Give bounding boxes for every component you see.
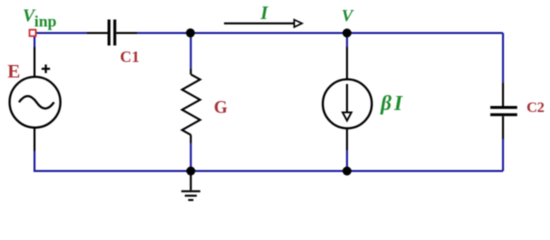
plus sign of E (42, 65, 50, 74)
resistor G (182, 69, 200, 143)
svg-text:inp: inp (34, 14, 56, 31)
ground (181, 175, 200, 200)
node Vinp terminal square (30, 30, 36, 36)
svg-text:G: G (214, 97, 228, 117)
voltage source E (10, 47, 61, 151)
node dot current source bottom (343, 167, 352, 176)
wire bottom bus (34, 170, 504, 172)
wire right branch (502, 33, 504, 83)
svg-text:C1: C1 (120, 49, 140, 66)
node dot G bottom (186, 167, 195, 176)
svg-text:I: I (260, 3, 269, 24)
wire G branch (190, 33, 192, 69)
capacitor C2 (490, 83, 517, 139)
svg-text:V: V (342, 6, 355, 25)
node dot G top (186, 28, 195, 37)
capacitor C1 (87, 20, 137, 46)
wire top bus (34, 33, 504, 171)
node V dot (343, 29, 352, 38)
svg-text:βI: βI (380, 91, 403, 115)
current source beta*I (323, 47, 372, 150)
wire left branch (34, 36, 36, 47)
svg-text:E: E (8, 61, 21, 82)
current arrow I (224, 20, 302, 27)
svg-text:C2: C2 (527, 100, 545, 116)
wire current-source branch (346, 33, 348, 47)
